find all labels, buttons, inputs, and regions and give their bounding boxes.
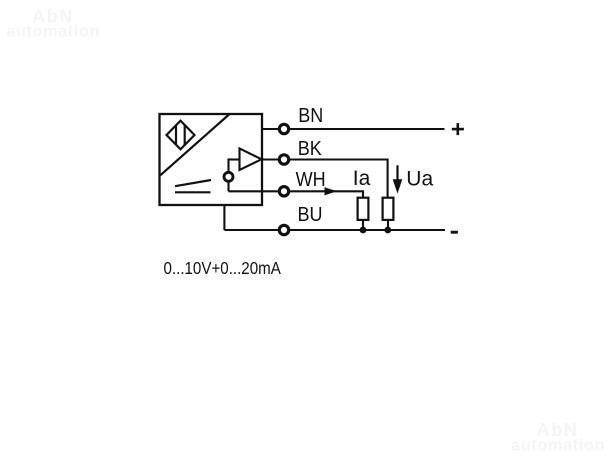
label - (minus terminal) bbox=[451, 231, 458, 234]
wire BU bbox=[224, 229, 445, 231]
resistor R2 (load on BK) bbox=[383, 198, 394, 220]
wire node down to WH line bbox=[227, 182, 229, 192]
wire amp input bbox=[229, 158, 240, 160]
wire BN bbox=[262, 128, 445, 130]
diagonal divider line bbox=[160, 115, 229, 176]
watermark top-left AbN automation bbox=[6, 7, 100, 41]
adjustment symbol (two lines) bbox=[175, 180, 211, 192]
svg-text:Ia: Ia bbox=[353, 167, 371, 190]
svg-text:WH: WH bbox=[296, 169, 326, 191]
svg-text:automation: automation bbox=[6, 23, 100, 41]
sensor body U1 (box) bbox=[160, 114, 263, 205]
wire R1 to BU bbox=[362, 221, 364, 230]
terminal BN bbox=[279, 124, 288, 133]
terminal BU bbox=[279, 225, 288, 234]
wire amp input down to node bbox=[227, 159, 229, 173]
watermark bottom-right AbN automation bbox=[511, 420, 605, 455]
junction dot at R1/BU bbox=[360, 227, 367, 234]
op-amp A1 (amplifier triangle) bbox=[240, 148, 262, 170]
wire BK with bend down to R2 bbox=[262, 160, 388, 198]
junction dot at R2/BU bbox=[384, 227, 391, 234]
arrow Ia (current direction on WH wire) bbox=[325, 187, 337, 195]
inductive sensing face symbol (diamond) bbox=[167, 121, 195, 150]
svg-text:0...10V+0...20mA: 0...10V+0...20mA bbox=[164, 259, 281, 278]
svg-text:automation: automation bbox=[511, 437, 605, 455]
node circle (tap) bbox=[224, 172, 233, 181]
arrow Ua (voltage direction) bbox=[396, 165, 398, 181]
terminal BK bbox=[279, 155, 288, 164]
wire box bottom to BU bbox=[223, 205, 225, 230]
label + (plus terminal) bbox=[452, 123, 464, 135]
resistor R1 (load on WH) bbox=[358, 198, 369, 220]
wire R2 to BU bbox=[387, 221, 389, 230]
wire WH with bend down to R1 bbox=[262, 191, 363, 197]
svg-text:BN: BN bbox=[298, 105, 323, 127]
svg-text:BK: BK bbox=[298, 138, 322, 160]
svg-text:Ua: Ua bbox=[406, 168, 433, 191]
terminal WH bbox=[279, 187, 288, 196]
svg-text:BU: BU bbox=[298, 204, 323, 226]
wire WH inside box bbox=[229, 190, 263, 192]
